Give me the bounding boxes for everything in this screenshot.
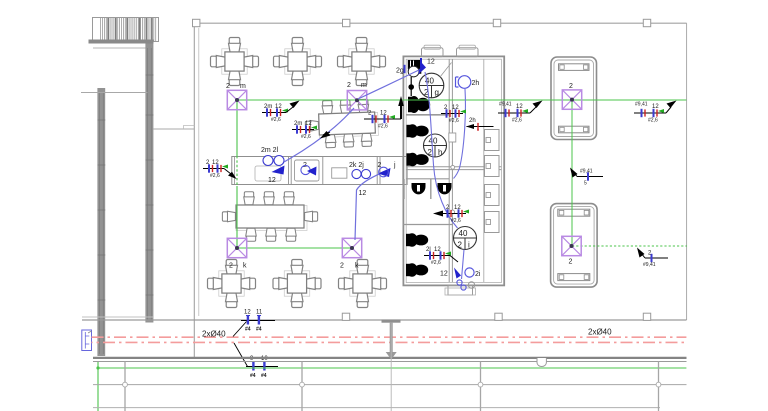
corridor post x125 — [124, 362, 126, 411]
fan label 2h lower — [466, 118, 494, 131]
svg-text:2: 2 — [229, 263, 233, 270]
corridor column tab x647 — [643, 313, 650, 320]
svg-text:k: k — [243, 263, 247, 270]
svg-text:12: 12 — [434, 247, 441, 253]
table with 4 chairs T2 — [274, 38, 322, 86]
leader to upper tick group — [233, 322, 247, 337]
corridor post x658 — [658, 362, 660, 411]
svg-text:#4: #4 — [250, 373, 256, 379]
socket group S3 — [292, 121, 331, 140]
svg-text:#2,6: #2,6 — [512, 118, 522, 124]
wall: dark lintel bar under hatched block — [89, 40, 154, 44]
svg-text:#2,6: #2,6 — [271, 117, 281, 123]
urinal U1 — [412, 183, 426, 194]
socket group S4 right of table — [364, 111, 401, 130]
stall door S3 — [485, 185, 500, 206]
svg-text:5: 5 — [584, 181, 587, 187]
blue arrow counter seg4 — [378, 168, 391, 177]
svg-text:12: 12 — [452, 105, 459, 111]
extract valve circle 40/2g — [419, 63, 451, 98]
long table bottom with chairs — [222, 192, 317, 241]
corridor thin ledge left — [82, 316, 153, 318]
junction dot on riser — [408, 84, 414, 90]
junction circles at toilet bottom wall — [457, 280, 462, 285]
svg-text:#2,6: #2,6 — [449, 118, 459, 124]
svg-text:12: 12 — [268, 177, 276, 184]
svg-text:2: 2 — [347, 82, 351, 89]
svg-text:#4: #4 — [256, 327, 262, 333]
svg-text:2: 2 — [458, 241, 463, 250]
svg-text:2h: 2h — [469, 118, 476, 124]
stall door S4 — [485, 212, 500, 233]
svg-text:#2,6: #2,6 — [648, 118, 658, 124]
corridor mid rail — [93, 384, 687, 386]
wire: green dashed y246 to right wall — [572, 245, 687, 247]
svg-text:2: 2 — [226, 83, 230, 90]
svg-text:40: 40 — [459, 229, 468, 238]
svg-text:12: 12 — [427, 59, 435, 66]
wall: top-left hatched block — [93, 18, 159, 42]
steel column I-beam — [382, 320, 401, 411]
green corridor feeder horizontal — [98, 367, 686, 369]
toilet stall wall vertical x484 — [483, 59, 485, 282]
blue arrow toilet bottom — [454, 268, 461, 279]
socket group S1 left wall — [203, 160, 237, 179]
black service duct top-left of toilets — [408, 60, 422, 74]
toilet partition y224.5 — [403, 224, 453, 226]
sink circles 2k 2j on counter — [352, 169, 361, 178]
corridor column tab x498 — [495, 313, 502, 320]
corridor column tab x346 — [342, 313, 349, 320]
corridor post x302 — [301, 362, 303, 411]
svg-text:12: 12 — [275, 104, 282, 110]
wire: main lighting circuit green y100 — [237, 99, 686, 101]
wire: blue run lower segment — [462, 250, 465, 280]
wall: thin ledge line below block — [93, 47, 148, 49]
rail joint circle x480 — [478, 382, 483, 387]
svg-text:2m: 2m — [294, 121, 302, 127]
hook tab on band — [537, 358, 546, 367]
svg-text:12: 12 — [359, 190, 367, 197]
svg-text:2g: 2g — [396, 68, 404, 75]
corridor upper wall line — [82, 319, 687, 321]
corridor post x480 — [480, 362, 482, 411]
leader to lower tick group — [234, 343, 248, 367]
svg-text:2xØ40: 2xØ40 — [588, 328, 612, 337]
svg-text:12: 12 — [244, 310, 251, 316]
svg-text:#4: #4 — [261, 373, 267, 379]
black entry arrow near toilets — [400, 103, 402, 119]
WC fixture mid2 — [407, 153, 429, 167]
svg-text:12: 12 — [454, 205, 461, 211]
WC fixture low2 — [406, 263, 428, 277]
svg-text:12: 12 — [212, 160, 219, 166]
WC fixture at green line — [408, 96, 430, 113]
wire: blue switch drop from L2 to counter — [284, 108, 354, 162]
blue arrow counter seg2 — [307, 167, 317, 176]
urinal U2 — [438, 183, 452, 194]
sink circles 2m 2l on counter — [263, 156, 273, 166]
svg-text:#2,6: #2,6 — [431, 260, 441, 266]
extract valve circle 40/2i — [454, 227, 477, 250]
stall door S1 — [485, 130, 500, 151]
stall door S2 — [485, 156, 500, 177]
svg-text:2k 2j: 2k 2j — [349, 162, 364, 169]
blue circle counter seg2 — [301, 165, 310, 174]
svg-text:2: 2 — [428, 148, 433, 157]
wire: blue spur to 2h fan — [454, 89, 466, 179]
rail joint circle x658 — [656, 382, 661, 387]
svg-text:g: g — [435, 88, 439, 97]
table with 4 chairs T6 — [339, 260, 387, 308]
svg-text:2: 2 — [569, 259, 573, 266]
svg-text:12: 12 — [652, 104, 659, 110]
kitchen counter row — [232, 157, 407, 185]
socket group S6 — [498, 101, 543, 124]
table with 4 chairs T4 — [208, 260, 256, 308]
extract valve circle 40/2h — [424, 134, 447, 157]
corridor band upper edge — [93, 357, 687, 359]
corridor band lower edge — [93, 361, 687, 363]
wire: green link y248 — [237, 247, 352, 249]
luminaire box 2k L4 — [342, 238, 361, 257]
svg-text:#9,41: #9,41 — [635, 102, 648, 108]
svg-text:2: 2 — [340, 263, 344, 270]
door mat below toilet block — [445, 286, 476, 296]
blue tie bar at toilet entry — [420, 58, 422, 67]
wire: blue drop to L4 — [355, 172, 384, 240]
svg-text:40: 40 — [429, 137, 438, 146]
svg-text:2h: 2h — [472, 80, 480, 87]
green corridor feeder vertical — [97, 362, 99, 411]
conference table with chairs — [305, 99, 379, 149]
wall niche rect in toilet corridor — [449, 133, 456, 142]
wire: blue run down through toilets — [425, 72, 458, 228]
cistern unit above toilet wall right — [457, 45, 479, 57]
svg-text:#2,6: #2,6 — [378, 124, 388, 130]
conduit run 2x40 red dashdot lower — [92, 341, 687, 343]
wall: thin horizontal tie at y92 — [81, 92, 148, 94]
fan point 2i circle — [465, 268, 474, 277]
svg-text:#4: #4 — [245, 327, 251, 333]
wall: room outline — [194, 23, 686, 359]
svg-text:2m: 2m — [264, 104, 272, 110]
svg-text:2: 2 — [569, 83, 573, 90]
riser wire vertical — [410, 77, 412, 96]
socket group S8 below R1 — [570, 168, 603, 187]
svg-text:#9,41: #9,41 — [580, 169, 593, 175]
blue arrow at counter seg1 — [272, 166, 285, 175]
socket group S7 far right — [634, 101, 677, 124]
svg-text:2xØ40: 2xØ40 — [202, 330, 226, 339]
column tab on top wall x647 — [643, 19, 650, 26]
svg-text:#2,6: #2,6 — [451, 218, 461, 224]
rail joint circle x302 — [300, 382, 305, 387]
svg-text:12: 12 — [516, 104, 523, 110]
urinal divider screens — [404, 179, 431, 199]
column tab on top wall x346 — [343, 19, 350, 26]
blue tick left of toilets — [404, 65, 406, 73]
corridor bottom rail — [93, 407, 660, 409]
cabinet: tall rounded unit top-right R1 — [551, 57, 597, 140]
wire: blue feed from L2 to toilets — [358, 69, 421, 99]
svg-text:h: h — [438, 148, 442, 157]
toilet partition y115 — [406, 114, 450, 116]
luminaire box right bottom L6 — [562, 236, 581, 255]
svg-text:12: 12 — [305, 121, 312, 127]
svg-text:2l: 2l — [426, 247, 431, 253]
svg-text:i: i — [468, 241, 470, 250]
table with 4 chairs T1 — [211, 38, 259, 86]
junction circle on toilet wall lower — [451, 165, 455, 169]
toilet inner corridor wall vertical x450 — [449, 59, 452, 282]
luminaire box 2m L1 — [227, 90, 246, 109]
svg-text:12: 12 — [440, 271, 448, 278]
wire: green drop x572 dotted — [571, 100, 573, 246]
blue circle counter seg4 — [379, 167, 389, 177]
WC fixture mid1 — [407, 124, 429, 138]
svg-text:j: j — [393, 162, 396, 169]
svg-text:11: 11 — [256, 310, 263, 316]
svg-text:2m 2l: 2m 2l — [261, 147, 279, 154]
svg-text:2i: 2i — [475, 271, 481, 278]
toilet partition y167.5 full — [406, 167, 502, 170]
grey circle at toilet exit — [468, 282, 474, 288]
toilet partition y179 urinal wall — [406, 178, 450, 180]
conduit run 2x40 red dashdot upper — [92, 336, 687, 338]
svg-text:#2,6: #2,6 — [301, 134, 311, 140]
svg-text:#2,6: #2,6 — [210, 173, 220, 179]
table with 4 chairs T5 — [273, 260, 321, 308]
socket group S9 right of R2 — [637, 248, 668, 269]
green junction dot — [96, 366, 99, 369]
blue arrow at toilet entry — [418, 63, 426, 75]
junction circle on toilet wall upper — [451, 138, 455, 142]
rail joint circle x125 — [123, 382, 128, 387]
toilet block outer walls — [403, 56, 504, 285]
wire: green riser x237 — [236, 100, 238, 156]
fan point 2h circle — [458, 76, 471, 89]
washbasin circle top-left — [408, 66, 419, 77]
svg-text:12: 12 — [380, 111, 387, 117]
socket group S5 toilet upper — [441, 105, 466, 124]
svg-text:m: m — [240, 83, 246, 90]
wall: vertical pier right (x150) — [145, 44, 153, 323]
column tab on top wall x196 — [193, 19, 200, 26]
svg-text:#9,41: #9,41 — [643, 262, 656, 268]
svg-text:m: m — [361, 82, 367, 89]
column tab on top wall x497 — [493, 19, 500, 26]
cistern unit above toilet wall left — [422, 45, 444, 57]
cabinet: tall rounded unit bottom-right R2 — [551, 204, 598, 288]
wall: interior partition stub y129 — [153, 128, 194, 130]
wall: vertical pier left (x102) — [97, 88, 105, 356]
luminaire box right top L5 — [562, 90, 581, 109]
tick group 12 11 above corridor — [241, 310, 275, 333]
luminaire box 2m L2 — [347, 91, 366, 110]
socket group S2 — [262, 101, 300, 124]
tick group 9 10 below corridor — [246, 356, 278, 379]
table with 4 chairs T3 — [338, 38, 386, 86]
svg-text:#9,41: #9,41 — [499, 102, 512, 108]
WC fixture low1 — [406, 233, 428, 247]
svg-text:k: k — [355, 263, 359, 270]
cable riser box at left edge — [82, 330, 92, 351]
junction circle on toilet wall lowest — [451, 210, 455, 214]
luminaire box 2k L3 — [227, 238, 246, 257]
socket group S10 toilet lower — [433, 205, 469, 224]
socket group S11 toilet lower-left — [424, 247, 458, 266]
